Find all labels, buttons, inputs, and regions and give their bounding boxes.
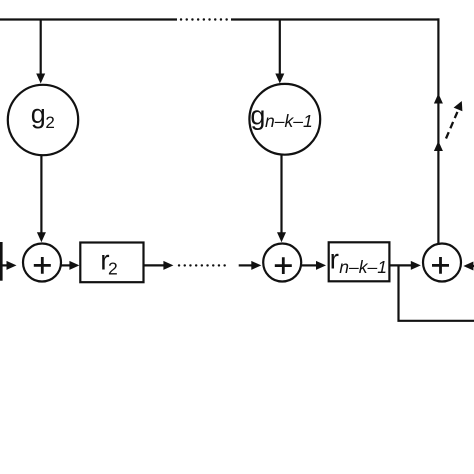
adder A2 <box>263 244 301 282</box>
register r2 <box>80 243 143 283</box>
wire: r2 output <box>144 264 165 266</box>
wire: top feedback bus solid right segment <box>231 18 440 20</box>
arrowhead into rn-k-1 <box>316 261 326 270</box>
arrowhead into gn-k-1 <box>275 74 284 84</box>
plus A2 <box>275 257 292 274</box>
svg-text:g: g <box>31 99 46 129</box>
wire: adder A1 to r2 <box>61 264 71 266</box>
arrowhead into g2 <box>36 74 45 84</box>
wire: drop from bus to g2 <box>40 20 42 75</box>
plus A3 <box>432 257 449 274</box>
wire: rn-k-1 to adder A3 <box>390 264 412 266</box>
svg-text:2: 2 <box>108 258 118 278</box>
wire: r1 to adder A1 <box>2 264 8 266</box>
arrowhead into r2 <box>69 261 79 270</box>
register rn-k-1 <box>329 242 390 281</box>
multiplier gn-k-1 <box>249 84 320 155</box>
plus A1 <box>34 257 51 274</box>
wire: drop from bus to gn-k-1 <box>279 20 281 75</box>
multiplier g2 <box>8 85 78 155</box>
svg-text:n–k–1: n–k–1 <box>339 257 387 277</box>
register edge r1 (cut off at left) <box>0 242 3 281</box>
svg-text:n–k–1: n–k–1 <box>265 111 313 131</box>
adder A3 <box>423 244 461 282</box>
svg-text:g: g <box>250 100 265 130</box>
arrowhead into adder A3 right <box>463 262 473 271</box>
arrowhead into adder A2 left <box>251 261 261 270</box>
wire: message input from right into adder A3 <box>466 265 474 267</box>
arrowhead into adder A3 <box>411 261 421 270</box>
arrowhead up on feedback line (upper) <box>434 94 443 104</box>
dashed switch arrow <box>446 101 462 139</box>
arrowhead into adder A1 <box>37 232 46 242</box>
wire: adder A2 to rn-k-1 <box>302 264 317 266</box>
wire: top feedback bus dotted segment <box>181 18 229 20</box>
arrowhead r2 output <box>163 261 173 270</box>
wire: dotted middle segment <box>179 264 229 266</box>
wire: output tap down and right <box>399 265 474 320</box>
wire: g2 to adder A1 <box>40 156 42 234</box>
svg-text:r: r <box>330 244 339 275</box>
wire: top feedback bus solid left segment <box>0 18 177 20</box>
adder A1 <box>23 244 61 282</box>
svg-text:2: 2 <box>45 113 54 132</box>
arrowhead up on feedback line (lower) <box>434 141 443 151</box>
wire: right feedback vertical line <box>437 18 439 245</box>
arrowhead to adder A1 <box>7 261 17 270</box>
wire: into adder A2 <box>239 264 252 266</box>
wire: gn-k-1 to adder A2 <box>280 156 282 234</box>
arrowhead into adder A2 <box>277 232 286 242</box>
